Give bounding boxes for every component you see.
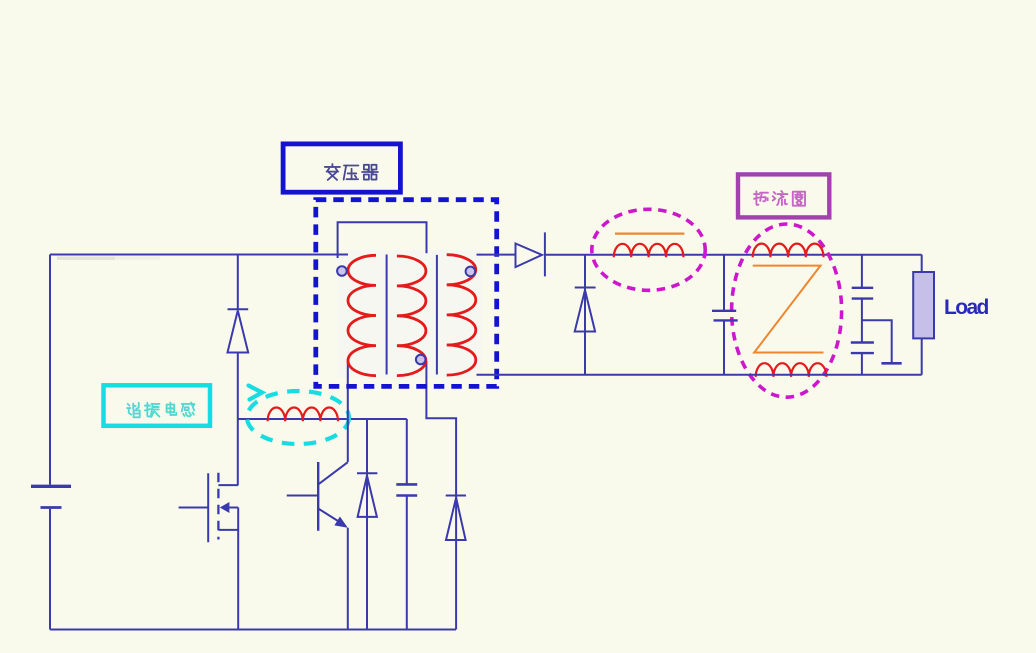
choke ellipse 2 (732, 224, 842, 397)
wire capacitor C1 branch lower (406, 496, 408, 630)
label text 谐振电感 (127, 403, 194, 418)
diode D5 (575, 288, 596, 332)
transformer right winding (447, 255, 476, 375)
label box 谐振电感 (104, 385, 211, 426)
cyan arrow head on ellipse (249, 386, 263, 400)
wire Q2 emitter to bottom rail (347, 528, 349, 630)
capacitor C2 (712, 311, 738, 321)
wire middle winding lead to D3 (426, 361, 456, 630)
wire node at x=238 down from top rail (237, 255, 239, 310)
wire secondary top lead (477, 254, 516, 256)
phase dot primary (337, 266, 347, 276)
wire left vertical to battery (49, 255, 51, 485)
inductor L1 (choke1 red coil) (614, 244, 684, 258)
wire D1 to MOSFET drain (237, 353, 239, 486)
wire capacitor C2 upper (723, 255, 725, 311)
wire Q1 source to bottom rail (237, 508, 239, 630)
label text 扼流圈 (754, 191, 805, 206)
transformer core line right (436, 255, 438, 375)
wire lower output rail (477, 374, 922, 376)
label box 变压器 (283, 144, 400, 192)
wire diode D5 branch (584, 255, 586, 375)
choke ellipse 1 (592, 209, 705, 290)
wire C4 to lower rail (861, 353, 863, 375)
phase dot secondary (466, 267, 476, 277)
ground bar (881, 362, 901, 365)
inductor L2b (choke2 bottom coil) (756, 363, 827, 377)
wire battery to bottom rail (49, 509, 51, 630)
diode D3 (446, 496, 466, 541)
label box 扼流圈 (738, 174, 829, 217)
resistor Load (913, 272, 934, 338)
wire capacitor C1 branch upper (406, 419, 408, 484)
inductor L2a (choke2 top coil) (753, 244, 824, 258)
capacitor C3 (852, 288, 874, 299)
wire D4 to output rail (545, 254, 922, 256)
wire transformer top jumper (338, 222, 427, 258)
diode D4 (516, 232, 545, 276)
diode D2 (357, 473, 377, 517)
cyan dashed ellipse around Lr (247, 391, 349, 444)
label text 变压器 (325, 164, 378, 180)
choke2 orange Z (753, 266, 824, 353)
transformer T1 dashed box (316, 200, 497, 387)
capacitor C1 (396, 484, 417, 495)
wire diode D2 branch (366, 419, 368, 630)
transistor Q1 (MOSFET) (179, 473, 239, 543)
diode D1 (228, 309, 249, 352)
wire tee to ground (862, 320, 892, 363)
transformer primary winding (348, 255, 376, 375)
wire load top lead (921, 255, 923, 273)
wire transformer primary bottom lead (347, 361, 349, 462)
choke1 orange bar (615, 233, 684, 235)
phase dot middle winding (416, 355, 426, 365)
inductor Lr (resonant, red coil) (268, 408, 338, 422)
transformer middle winding (397, 256, 426, 376)
capacitor C4 (851, 343, 874, 354)
battery V1 (31, 486, 71, 507)
wire bottom rail (50, 629, 456, 631)
wire output cap branch upper (861, 255, 863, 288)
wire capacitor C2 lower (723, 320, 725, 374)
wire load bottom lead (921, 338, 923, 374)
wire top rail left (50, 254, 348, 256)
wire resonant inductor rail (238, 418, 407, 420)
transistor Q2 (BJT) (287, 462, 348, 531)
transformer core line left (386, 255, 388, 375)
wire between C3 and C4 (861, 299, 863, 343)
svg-text:Load: Load (944, 296, 989, 319)
